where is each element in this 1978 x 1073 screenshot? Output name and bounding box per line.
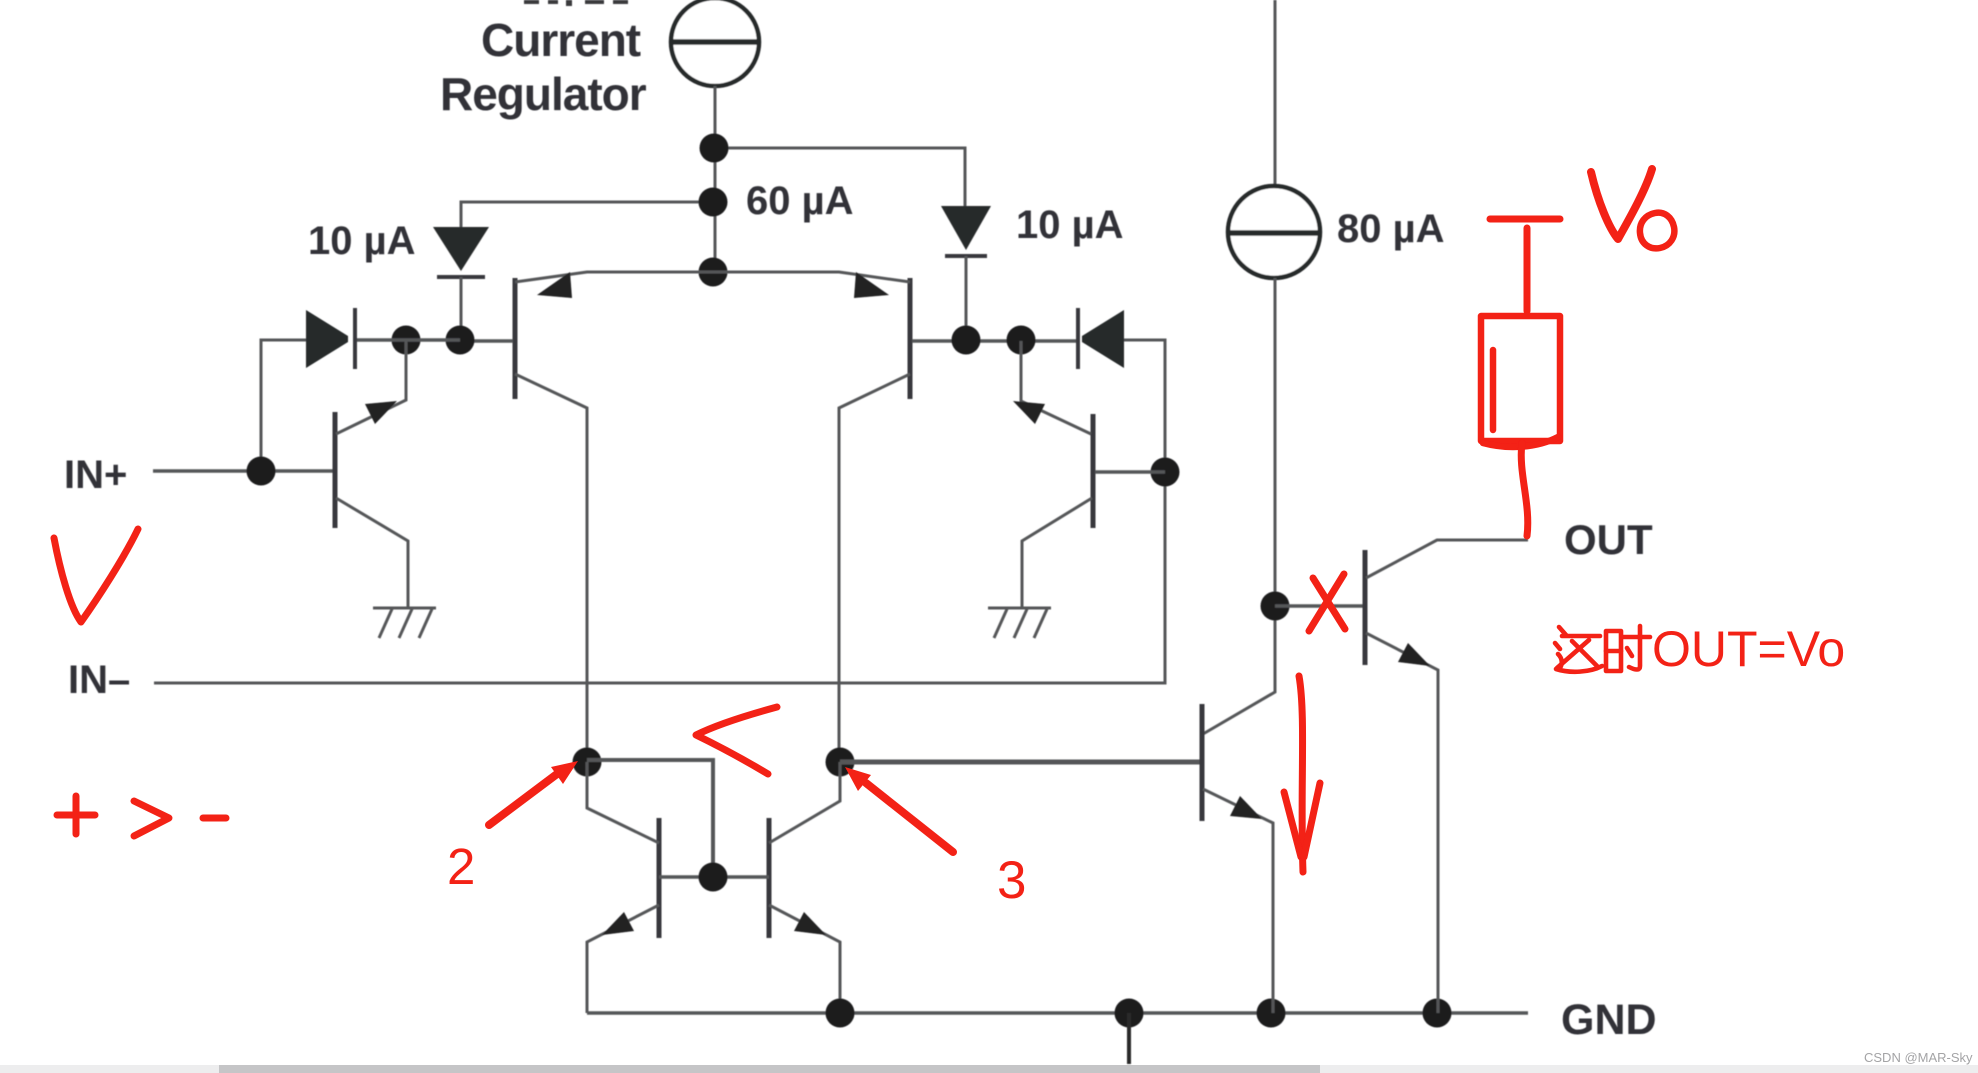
svg-text:OUT=Vo: OUT=Vo: [1652, 621, 1845, 677]
svg-text:3: 3: [997, 851, 1026, 910]
diode D1 (left 10uA): [433, 227, 489, 341]
diode D2 (right 10uA): [941, 206, 991, 341]
node (D3 cathode junction): [392, 326, 421, 355]
node 3 (right mirror collector): [826, 748, 855, 777]
red annotations: [54, 169, 1845, 910]
node (Q2 emitter junction): [1007, 326, 1036, 355]
wire: IN+ up to D3 anode: [261, 340, 306, 471]
transistor Q4 (right PNP of pair): [713, 272, 910, 763]
transistor Q7 (driver NPN): [1202, 704, 1273, 1013]
node (IN+ junction): [247, 457, 276, 486]
node (D1/Q3 base): [446, 326, 475, 355]
current source I1 (current regulator): [671, 0, 759, 86]
transistor Q2 (IN- input NPN): [1013, 341, 1165, 607]
node (60uA junction): [699, 188, 728, 217]
annotation check mark near IN+: [54, 529, 138, 622]
svg-text:OUT: OUT: [1564, 516, 1653, 563]
wire: stub below gnd rail: [1127, 1013, 1131, 1064]
annotation o (of Vo): [1640, 213, 1674, 249]
diode D3 (IN+ clamp, pointing right): [306, 308, 355, 369]
wire: ground rail: [587, 1011, 1528, 1015]
wire: 60uA node left then down to D1: [461, 202, 714, 227]
wire: output base: [1275, 604, 1363, 608]
node (mirror emitter / gnd): [826, 999, 855, 1028]
svg-text:10 µA: 10 µA: [1016, 203, 1124, 247]
node (I1 / right rail junction): [700, 134, 729, 163]
svg-text:Regulator: Regulator: [440, 68, 647, 120]
node D (output base node): [1261, 592, 1290, 621]
svg-text:60 µA: 60 µA: [746, 179, 854, 223]
svg-text:10 µA: 10 µA: [308, 219, 416, 263]
svg-text:2: 2: [447, 838, 475, 895]
wire: I1 bottom down through nodes to common base node: [714, 86, 717, 272]
annotation V (of Vo): [1591, 169, 1652, 239]
node (D2/Q4 base): [952, 326, 981, 355]
svg-text:IN+: IN+: [64, 453, 127, 497]
annotation arrow to node 3: [845, 767, 953, 852]
transistor Q6 (right mirror): [769, 762, 840, 1013]
ground (left input): [373, 608, 436, 638]
annotation X on output base: [1309, 574, 1345, 631]
ground (right input): [988, 608, 1051, 638]
node (output emitter / gnd): [1423, 999, 1452, 1028]
wire: D4 anode right, down, and IN- lead: [154, 340, 1165, 683]
wire: left base rail: [460, 339, 513, 343]
node (gnd pin stub): [1115, 999, 1144, 1028]
transistor Q3 (left PNP of pair): [515, 272, 713, 763]
node 2 (left mirror collector): [573, 748, 602, 777]
wire: D3 to node: [356, 338, 460, 342]
wire: mirror common base: [659, 875, 769, 879]
wire: top node right then down to D2: [714, 148, 965, 206]
annotation arrow to node 2: [489, 761, 578, 825]
diode D4 (IN- clamp, pointing left): [1078, 308, 1124, 369]
wire: right base rail through nodes to D4: [912, 339, 1077, 343]
transistor Q8 (output NPN): [1365, 540, 1528, 1013]
scrollbar thumb: [219, 1065, 1320, 1073]
annotation Vo terminal bar: [1490, 216, 1560, 223]
scrollbar track: [0, 1065, 1978, 1073]
annotation text OUT=Vo (chinese): [1555, 626, 1650, 672]
annotation "+ > -": [57, 796, 226, 836]
node (mirror base tap): [699, 863, 728, 892]
transistor Q1 (IN+ input NPN): [335, 341, 408, 607]
current source I2 (80 uA): [1228, 0, 1320, 278]
annotation resistor box: [1481, 316, 1560, 447]
annotation "<" mark: [696, 707, 777, 774]
svg-text:80 µA: 80 µA: [1337, 207, 1445, 251]
annotation wire resistor to OUT: [1521, 443, 1528, 536]
wire: I2 to driver collector: [1203, 278, 1275, 734]
wire: node2 to mirror base tap: [587, 760, 713, 882]
transistor Q5 (left mirror): [587, 762, 659, 1013]
svg-text:GND: GND: [1561, 996, 1657, 1044]
node (driver emitter / gnd): [1257, 999, 1286, 1028]
annotation current arrow (down): [1284, 676, 1320, 872]
svg-text:Current: Current: [481, 14, 641, 66]
svg-text:IN–: IN–: [68, 658, 130, 702]
partial cut-off text "50 uA" at top edge: [524, 0, 628, 6]
wire: node3 to driver base: [840, 760, 1200, 765]
node C (Q2 base junction): [1151, 458, 1180, 487]
node (common bases of Q3,Q4): [699, 258, 728, 287]
wire: IN+ lead: [153, 469, 333, 473]
svg-text:CSDN @MAR-Sky: CSDN @MAR-Sky: [1864, 1050, 1973, 1065]
annotation Vo lead: [1524, 228, 1531, 311]
